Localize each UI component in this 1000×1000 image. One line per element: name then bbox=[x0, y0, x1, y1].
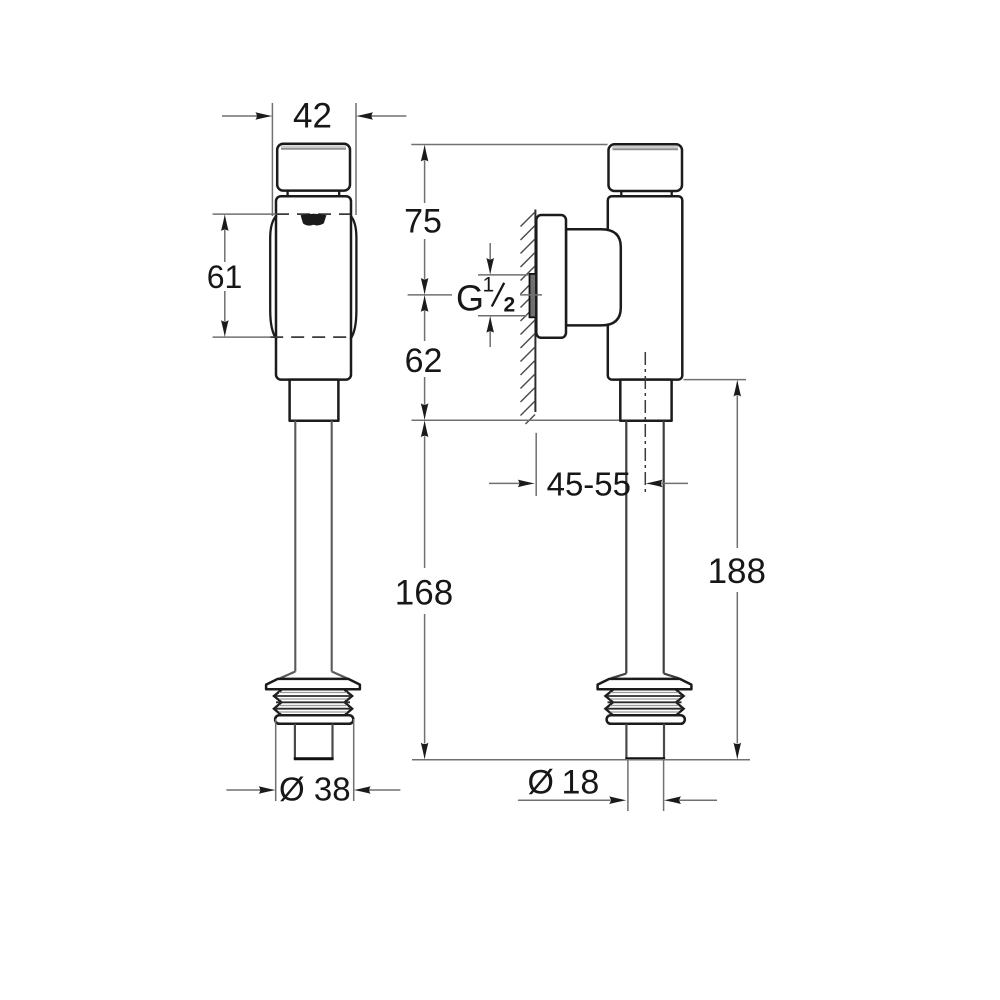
sleeve arc left bbox=[270, 216, 276, 340]
dimension 45-55 bbox=[489, 482, 519, 484]
G1/2 arrow top bbox=[489, 243, 491, 259]
svg-text:45-55: 45-55 bbox=[547, 465, 631, 502]
sleeve arc right bbox=[350, 216, 356, 340]
dimension 62 bbox=[421, 295, 429, 312]
push button cap (side) bbox=[609, 144, 683, 191]
svg-text:168: 168 bbox=[395, 573, 453, 612]
bottom assembly (side) bbox=[598, 679, 692, 759]
wall escutcheon bbox=[536, 215, 566, 338]
mid datum line bbox=[412, 419, 621, 421]
bottom datum line bbox=[412, 759, 750, 761]
188 top extension bbox=[684, 379, 747, 381]
wall line bbox=[534, 210, 536, 413]
inlet socket bbox=[566, 229, 621, 325]
top datum line bbox=[411, 144, 607, 146]
pipe extension below right bbox=[663, 760, 665, 811]
dimension 75 bbox=[421, 145, 429, 162]
push button cap (front) bbox=[277, 144, 350, 191]
dimension 42 right arrow bbox=[371, 115, 406, 117]
dimension 61 line bbox=[221, 214, 229, 231]
svg-text:18: 18 bbox=[562, 764, 600, 802]
outlet block (front) bbox=[290, 380, 339, 421]
extension line 42 right bbox=[355, 103, 357, 215]
svg-text:61: 61 bbox=[207, 259, 243, 295]
svg-text:75: 75 bbox=[404, 203, 442, 241]
svg-text:42: 42 bbox=[293, 97, 332, 136]
svg-text:188: 188 bbox=[708, 552, 766, 591]
dashed reference bottom bbox=[213, 336, 271, 338]
down pipe (side) bbox=[625, 421, 627, 674]
extension line dia38 right bbox=[353, 719, 355, 801]
extension line dia38 left bbox=[275, 719, 277, 801]
dimension 188 bbox=[734, 380, 742, 397]
svg-text:G: G bbox=[456, 278, 484, 319]
svg-text:2: 2 bbox=[504, 294, 516, 317]
wall extension line bbox=[535, 433, 537, 496]
svg-text:62: 62 bbox=[405, 342, 443, 380]
wall nipple G1/2 bbox=[530, 274, 537, 317]
wall hatching bbox=[521, 212, 536, 424]
neck ring ticks (side) bbox=[620, 191, 622, 196]
valve body (front) bbox=[276, 196, 351, 379]
svg-text:Ø 38: Ø 38 bbox=[279, 771, 351, 808]
outlet block (side) bbox=[620, 380, 671, 421]
pipe extension below left bbox=[627, 760, 629, 811]
dimension dia38 left arrow bbox=[226, 789, 260, 791]
G1/2 reference line top bbox=[478, 274, 529, 276]
cap top band bbox=[281, 145, 346, 148]
G1/2 arrow bottom bbox=[486, 316, 494, 333]
centerline bbox=[644, 352, 646, 496]
dimension 168 bbox=[421, 420, 429, 437]
label slash bbox=[492, 283, 504, 307]
G1/2 leader left bbox=[408, 294, 452, 296]
svg-text:1: 1 bbox=[483, 274, 495, 297]
neck ring ticks bbox=[286, 191, 288, 197]
svg-text:Ø: Ø bbox=[528, 764, 554, 802]
down pipe (front) bbox=[294, 421, 296, 672]
dimension dia38 right arrow bbox=[369, 789, 401, 791]
dashed reference top bbox=[213, 213, 276, 215]
G1/2 leader right bbox=[520, 294, 542, 296]
valve body (side) bbox=[608, 196, 683, 379]
extension line 42 left bbox=[271, 103, 273, 216]
logo badge bbox=[301, 214, 327, 226]
bottom assembly (front) bbox=[266, 679, 360, 759]
G1/2 reference line bottom bbox=[478, 315, 527, 317]
dimension 42 left arrow bbox=[222, 115, 257, 117]
